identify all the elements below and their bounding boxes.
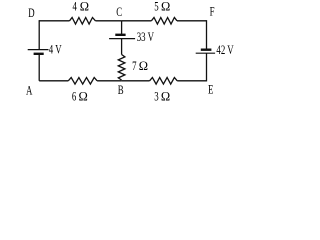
wire node C to R5 xyxy=(122,20,152,22)
wire R5 to F corner xyxy=(177,20,207,22)
label 7 ohm xyxy=(132,59,148,74)
wire D down to battery 4V xyxy=(38,20,40,49)
svg-text:42 V: 42 V xyxy=(216,43,233,57)
svg-text:7: 7 xyxy=(132,59,137,73)
resistor 7 ohm (middle, vertical) xyxy=(118,55,125,81)
wire battery 33V down to R7 xyxy=(121,39,123,55)
wire R3 to E corner xyxy=(177,80,206,82)
svg-text:Ω: Ω xyxy=(139,59,148,73)
wire R4 to node C xyxy=(95,20,121,22)
label 4 ohm xyxy=(73,0,89,14)
battery 42V long positive plate xyxy=(196,52,215,54)
svg-text:F: F xyxy=(210,5,215,19)
svg-text:Ω: Ω xyxy=(79,90,88,104)
resistor 4 ohm (top-left) xyxy=(70,18,96,25)
svg-text:5: 5 xyxy=(154,0,159,14)
wire node C down to battery 33V xyxy=(121,21,123,35)
svg-text:4 V: 4 V xyxy=(49,43,62,57)
wire A to R6 xyxy=(39,80,68,82)
svg-text:Ω: Ω xyxy=(80,0,89,14)
wire R6 to node B xyxy=(97,80,122,82)
wire D to R4 xyxy=(39,20,69,22)
svg-text:D: D xyxy=(28,6,34,20)
wire battery 4V down to A xyxy=(38,54,40,81)
wire node B to R3 xyxy=(122,80,150,82)
wire F down to battery 42V xyxy=(206,20,208,50)
svg-text:3: 3 xyxy=(154,90,159,104)
battery 42V short negative plate xyxy=(201,49,212,51)
svg-text:Ω: Ω xyxy=(161,0,170,14)
wire battery 42V down to E xyxy=(206,53,208,81)
svg-text:Ω: Ω xyxy=(161,90,170,104)
resistor 6 ohm (bottom-left) xyxy=(68,78,97,85)
battery 4V long positive plate xyxy=(28,49,49,51)
svg-text:A: A xyxy=(26,84,32,98)
battery 33V short negative plate xyxy=(115,34,125,36)
label 6 ohm xyxy=(72,90,88,105)
svg-text:33 V: 33 V xyxy=(137,30,154,44)
svg-text:C: C xyxy=(116,5,122,19)
label 3 ohm xyxy=(154,90,170,105)
battery 4V short negative plate xyxy=(34,53,44,55)
label 5 ohm xyxy=(154,0,170,14)
svg-text:B: B xyxy=(118,83,124,97)
svg-text:E: E xyxy=(208,83,214,97)
battery 33V long positive plate xyxy=(109,38,135,40)
svg-text:6: 6 xyxy=(72,90,77,104)
svg-text:4: 4 xyxy=(73,0,78,14)
resistor 3 ohm (bottom-right) xyxy=(150,78,178,85)
resistor 5 ohm (top-right) xyxy=(151,18,177,25)
